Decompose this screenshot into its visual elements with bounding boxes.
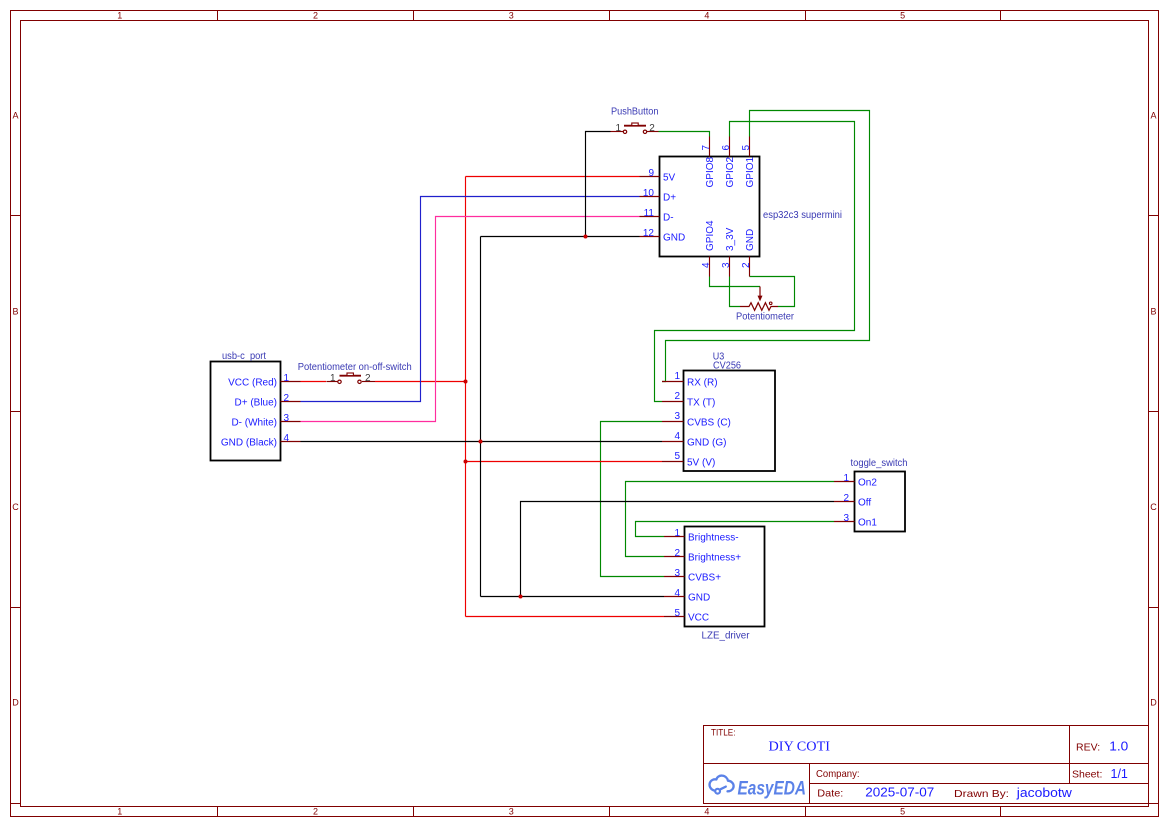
svg-text:D-: D-	[663, 213, 674, 224]
svg-text:GND (Black): GND (Black)	[221, 438, 277, 449]
svg-text:6: 6	[721, 145, 732, 151]
U3 pin 2 TX (T)	[662, 401, 684, 403]
esp32 pin 2 GND (bottom)	[749, 257, 751, 277]
svg-text:Brightness+: Brightness+	[688, 553, 741, 564]
LZE_driver board	[664, 527, 765, 642]
svg-text:PushButton: PushButton	[611, 107, 659, 118]
potentiometer terminal marker	[769, 302, 772, 305]
esp32 pin 9 5V	[640, 176, 660, 178]
esp32 pin 7 GPIO8 (top)	[709, 137, 711, 157]
wire: 5V to esp32 pin9 (red)	[466, 176, 640, 178]
wire: LZE_driver Brightness- to toggle_switch On1 (green)	[636, 522, 835, 537]
svg-text:1: 1	[615, 123, 621, 134]
svg-text:GND: GND	[745, 229, 756, 251]
svg-text:1: 1	[843, 473, 849, 484]
junction: GND net at usb row	[479, 440, 483, 444]
wire: PushButton pin1 to GND (black)	[586, 132, 611, 237]
svg-text:Date:: Date:	[817, 788, 843, 800]
svg-text:4: 4	[704, 807, 709, 817]
U3 pin 3 CVBS (C)	[662, 421, 684, 423]
wire: 5V vertical net (red)	[465, 177, 467, 617]
svg-text:Drawn By:: Drawn By:	[954, 788, 1009, 800]
potentiometer on-off-switch S?	[298, 362, 412, 384]
wire: 5V to LZE_driver VCC (red)	[466, 616, 665, 618]
U3 pin 1 RX (R)	[662, 381, 684, 383]
PushButton contacts	[623, 130, 626, 133]
svg-text:3: 3	[721, 262, 732, 268]
wire: esp32 GPIO4 pin4 to potentiometer wiper (green)	[710, 277, 761, 287]
wire: PushButton pin2 to esp32 GPIO8 (green)	[659, 132, 710, 137]
PushButton actuator bar	[624, 125, 646, 127]
svg-text:A: A	[12, 111, 18, 121]
esp32 pin 6 GPIO2 (top)	[729, 137, 731, 157]
wire: GND to LZE_driver GND (black)	[481, 596, 665, 598]
wire: usb D+ to esp32 D+ (blue)	[301, 197, 640, 402]
svg-text:4: 4	[284, 433, 290, 444]
esp32 pin 12 GND	[640, 236, 660, 238]
svg-text:3: 3	[284, 413, 290, 424]
usb-c pin 2 D+ (Blue)	[281, 401, 301, 403]
svg-text:GND: GND	[663, 233, 685, 244]
svg-text:1: 1	[330, 373, 336, 384]
esp32 pin 10 D+	[640, 196, 660, 198]
svg-text:GND: GND	[688, 593, 710, 604]
svg-text:Sheet:: Sheet:	[1072, 769, 1102, 781]
wire: esp32 GND pin2 to potentiometer right (green)	[750, 277, 795, 307]
svg-text:DIY COTI: DIY COTI	[769, 739, 831, 754]
svg-text:5: 5	[674, 608, 680, 619]
svg-text:VCC: VCC	[688, 613, 709, 624]
usb-c pin 3 D- (White)	[281, 421, 301, 423]
svg-text:3: 3	[509, 807, 514, 817]
svg-text:5: 5	[900, 807, 905, 817]
title block	[704, 726, 1149, 804]
svg-text:4: 4	[704, 11, 709, 21]
svg-text:D- (White): D- (White)	[231, 418, 277, 429]
junction: 5V net at switch output	[464, 380, 468, 384]
svg-text:A: A	[1150, 111, 1156, 121]
svg-text:1: 1	[284, 373, 290, 384]
svg-text:5V (V): 5V (V)	[687, 458, 715, 469]
svg-text:11: 11	[644, 208, 655, 219]
esp32 pin 4 GPIO4 (bottom)	[709, 257, 711, 277]
svg-text:TITLE:: TITLE:	[711, 728, 736, 739]
wire: GND to esp32 GND pin12 (black)	[481, 236, 640, 238]
esp32 pin 11 D-	[640, 216, 660, 218]
svg-text:CVBS+: CVBS+	[688, 573, 721, 584]
svg-text:VCC (Red): VCC (Red)	[228, 378, 277, 389]
LZE_driver pin 3 CVBS+	[664, 576, 685, 578]
wire: on-off-switch pin2 to 5V net (red)	[375, 381, 466, 383]
svg-text:3: 3	[674, 411, 680, 422]
svg-text:Potentiometer on-off-switch: Potentiometer on-off-switch	[298, 362, 412, 373]
svg-text:D: D	[12, 698, 19, 708]
U3 CV256 converter	[662, 352, 775, 472]
svg-text:2025-07-07: 2025-07-07	[865, 786, 934, 800]
svg-text:GPIO4: GPIO4	[705, 220, 716, 251]
svg-text:9: 9	[648, 168, 654, 179]
svg-text:2: 2	[649, 123, 655, 134]
svg-text:Potentiometer: Potentiometer	[736, 312, 795, 323]
wire: usb D- to esp32 D- (pink)	[301, 217, 640, 422]
junction: GND net at toggle Off branch	[519, 595, 523, 599]
wire: GND to toggle_switch Off (black)	[521, 502, 835, 597]
svg-text:REV:: REV:	[1076, 742, 1100, 754]
esp32 pin 5 GPIO1 (top)	[749, 137, 751, 157]
junction: GND net at PushButton branch	[584, 235, 588, 239]
toggle_switch pin 3 On1	[834, 521, 855, 523]
svg-text:4: 4	[701, 262, 712, 268]
LZE_driver pin 2 Brightness+	[664, 556, 685, 558]
on-off-switch contacts	[338, 380, 341, 383]
svg-text:B: B	[1150, 307, 1156, 317]
PushButton pin 1 stub	[611, 131, 624, 133]
wire: esp32 3_3V pin3 to potentiometer left (green)	[730, 277, 741, 307]
svg-text:1.0: 1.0	[1109, 740, 1128, 754]
svg-text:2: 2	[741, 262, 752, 268]
potentiometer resistor body	[740, 303, 778, 311]
svg-text:3: 3	[509, 11, 514, 21]
svg-text:TX (T): TX (T)	[687, 398, 715, 409]
svg-text:Company:: Company:	[816, 768, 860, 780]
svg-text:toggle_switch: toggle_switch	[851, 458, 908, 469]
svg-text:On2: On2	[858, 478, 877, 489]
toggle_switch S?	[834, 458, 908, 532]
svg-text:2: 2	[365, 373, 371, 384]
svg-text:GPIO1: GPIO1	[745, 156, 756, 187]
svg-text:GPIO2: GPIO2	[725, 156, 736, 187]
svg-text:C: C	[12, 502, 19, 512]
svg-text:CVBS (C): CVBS (C)	[687, 418, 731, 429]
svg-text:5V: 5V	[663, 173, 676, 184]
wire: GND vertical net (black)	[480, 237, 482, 597]
svg-text:1: 1	[674, 528, 680, 539]
esp32 pin 3 3_3V (bottom)	[729, 257, 731, 277]
svg-text:C: C	[1150, 502, 1157, 512]
wire: esp32 GPIO1 pin5 to U3 RX (green)	[662, 111, 870, 382]
svg-text:1: 1	[117, 807, 122, 817]
svg-text:GPIO8: GPIO8	[705, 156, 716, 187]
svg-text:EasyEDA: EasyEDA	[738, 779, 807, 800]
svg-text:On1: On1	[858, 518, 877, 529]
svg-text:3: 3	[674, 568, 680, 579]
U3 pin 4 GND (G)	[662, 441, 684, 443]
svg-text:3_3V: 3_3V	[725, 227, 736, 251]
svg-text:4: 4	[674, 588, 680, 599]
svg-text:5: 5	[900, 11, 905, 21]
svg-text:usb-c port: usb-c port	[222, 351, 266, 362]
svg-text:CV256: CV256	[713, 360, 741, 371]
junction: 5V net at U3 branch	[464, 460, 468, 464]
svg-text:2: 2	[843, 493, 849, 504]
wire: U3 CVBS to LZE_driver CVBS+ (green)	[601, 422, 665, 577]
svg-text:B: B	[12, 307, 18, 317]
on-off-switch pin 2 stub	[362, 381, 375, 383]
svg-text:5: 5	[741, 145, 752, 151]
toggle_switch pin 1 On2	[834, 481, 855, 483]
wire: esp32 GPIO2 pin6 to U3 TX (green)	[655, 122, 855, 402]
svg-text:Off: Off	[858, 498, 871, 509]
svg-text:Brightness-: Brightness-	[688, 533, 739, 544]
svg-text:7: 7	[701, 145, 712, 151]
U3 pin 5 5V (V)	[662, 461, 684, 463]
svg-text:D+ (Blue): D+ (Blue)	[234, 398, 277, 409]
LZE_driver pin 1 Brightness-	[664, 536, 685, 538]
PushButton pin 2 stub	[647, 131, 659, 133]
svg-text:3: 3	[843, 513, 849, 524]
svg-text:1: 1	[117, 11, 122, 21]
svg-text:1: 1	[674, 371, 680, 382]
wire: toggle_switch On2 to LZE_driver Brightness+ (green)	[626, 482, 835, 557]
wire: usb VCC to on-off-switch pin1 (red)	[301, 381, 327, 383]
svg-text:LZE_driver: LZE_driver	[702, 631, 751, 642]
svg-text:10: 10	[643, 188, 655, 199]
usb-c port connector	[211, 351, 301, 461]
on-off-switch pin 1 stub	[326, 381, 338, 383]
usb-c pin 1 VCC (Red)	[281, 381, 301, 383]
usb-c pin 4 GND (Black)	[281, 441, 301, 443]
wire: 5V to U3 5V (V) (red)	[466, 461, 663, 463]
pushbutton switch S?	[611, 107, 659, 134]
svg-text:D+: D+	[663, 193, 676, 204]
LZE_driver pin 5 VCC	[664, 616, 685, 618]
svg-text:2: 2	[674, 391, 680, 402]
svg-text:RX (R): RX (R)	[687, 378, 718, 389]
svg-text:5: 5	[674, 451, 680, 462]
svg-text:2: 2	[313, 11, 318, 21]
svg-text:GND (G): GND (G)	[687, 438, 726, 449]
potentiometer wiper arrow	[759, 287, 761, 297]
svg-text:jacobotw: jacobotw	[1016, 785, 1073, 800]
svg-text:1/1: 1/1	[1111, 767, 1128, 781]
toggle_switch pin 2 Off	[834, 501, 855, 503]
LZE_driver pin 4 GND	[664, 596, 685, 598]
svg-text:2: 2	[313, 807, 318, 817]
EasyEDA logo	[710, 776, 806, 800]
wire: usb GND to U3 GND (G) (black)	[301, 441, 663, 443]
potentiometer R?	[736, 287, 795, 323]
svg-text:12: 12	[643, 228, 655, 239]
on-off-switch actuator bar	[340, 375, 362, 377]
svg-text:D: D	[1150, 698, 1157, 708]
svg-text:esp32c3 supermini: esp32c3 supermini	[763, 210, 842, 221]
esp32c3 supermini module U?	[640, 137, 843, 277]
svg-text:2: 2	[284, 393, 290, 404]
svg-text:4: 4	[674, 431, 680, 442]
svg-text:2: 2	[674, 548, 680, 559]
